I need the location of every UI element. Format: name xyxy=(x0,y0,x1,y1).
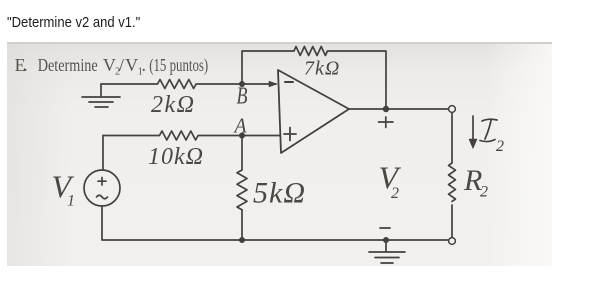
svg-text:1: 1 xyxy=(67,193,75,210)
svg-text:2: 2 xyxy=(496,138,504,155)
svg-text:5kΩ: 5kΩ xyxy=(253,177,306,210)
svg-text:2: 2 xyxy=(391,185,399,202)
svg-text:V: V xyxy=(103,55,116,75)
svg-text:B: B xyxy=(237,84,248,110)
svg-text:V: V xyxy=(125,55,138,75)
svg-text:(15 puntos): (15 puntos) xyxy=(149,55,208,76)
svg-text:2: 2 xyxy=(480,184,488,201)
svg-text:Determine: Determine xyxy=(38,55,98,75)
svg-text:.: . xyxy=(142,55,147,75)
svg-text:2kΩ: 2kΩ xyxy=(151,92,196,118)
svg-text:7kΩ: 7kΩ xyxy=(304,58,340,80)
svg-text:A: A xyxy=(233,114,247,138)
svg-text:/: / xyxy=(119,55,124,75)
svg-text:10kΩ: 10kΩ xyxy=(148,144,204,170)
svg-text:E.: E. xyxy=(15,55,28,75)
